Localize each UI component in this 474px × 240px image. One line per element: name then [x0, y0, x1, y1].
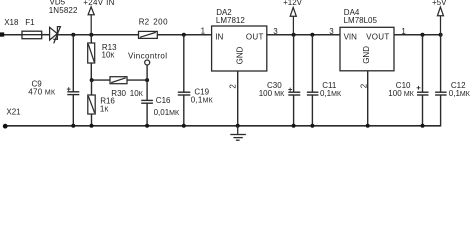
- node: C19 to bus: [182, 124, 186, 128]
- node: C11 to bus: [310, 124, 314, 128]
- fuse F1: [22, 31, 42, 39]
- svg-text:GND: GND: [236, 46, 245, 64]
- node: C30 to bus: [292, 124, 296, 128]
- resistor R13: [88, 35, 95, 80]
- svg-text:0,1МК: 0,1МК: [320, 89, 342, 98]
- node: +12V / C30 junction: [292, 33, 296, 37]
- svg-text:X18: X18: [4, 18, 19, 27]
- terminal X18: [0, 32, 4, 36]
- svg-text:0,1МК: 0,1МК: [191, 96, 214, 105]
- svg-text:3: 3: [273, 27, 278, 36]
- wire: DA4 GND down: [367, 71, 369, 126]
- svg-text:2: 2: [228, 84, 237, 89]
- node: C10 junction: [421, 33, 425, 37]
- terminal Vincontrol (open circle): [145, 60, 150, 65]
- svg-text:10К: 10К: [130, 89, 144, 98]
- wire: F1 to VD5: [42, 34, 50, 36]
- svg-text:0,1МК: 0,1МК: [449, 89, 471, 98]
- svg-text:10К: 10К: [102, 51, 116, 60]
- svg-text:1К: 1К: [100, 104, 109, 113]
- wire: DA4 VOUT to +5V node: [394, 34, 441, 36]
- capacitor C10 (electrolytic, +): [417, 35, 429, 126]
- node: C9 to bus: [71, 124, 75, 128]
- capacitor C11: [307, 35, 319, 126]
- wire: main top rail X18 to F1: [2, 34, 22, 36]
- ground symbol: [230, 126, 246, 140]
- wire: R2 to DA2 IN: [157, 34, 211, 36]
- node: C10 to bus: [421, 124, 425, 128]
- node: diode output junction (C9 tap): [71, 33, 75, 37]
- node: C16 to bus: [145, 124, 149, 128]
- regulator DA4 LM78L05 box: [340, 27, 394, 71]
- svg-text:100 МК: 100 МК: [388, 89, 414, 98]
- wire: node to R30: [92, 79, 110, 81]
- svg-text:LM78L05: LM78L05: [344, 16, 378, 25]
- svg-text:F1: F1: [25, 18, 35, 27]
- capacitor C30 (electrolytic, +): [288, 35, 300, 126]
- node: C11 junction: [310, 33, 314, 37]
- node: R13/R16/R30 junction: [90, 78, 94, 82]
- svg-text:C16: C16: [156, 96, 171, 105]
- power arrow +12V: [290, 7, 296, 34]
- diode VD5 (Schottky 1N5822): [50, 26, 61, 43]
- svg-text:0,01МК: 0,01МК: [154, 108, 180, 117]
- node: +5V / C12 junction: [439, 33, 443, 37]
- svg-text:+5V: +5V: [432, 0, 447, 7]
- resistor R30: [110, 77, 127, 84]
- resistor R2: [139, 31, 158, 38]
- wire: VD5 to R2: [58, 34, 139, 36]
- svg-text:VOUT: VOUT: [366, 32, 389, 41]
- wire: DA2 GND down: [237, 71, 239, 126]
- svg-text:Vincontrol: Vincontrol: [128, 52, 167, 61]
- svg-text:1N5822: 1N5822: [49, 6, 78, 15]
- svg-text:IN: IN: [215, 32, 223, 41]
- wire: C9 branch down: [72, 35, 74, 92]
- svg-text:3: 3: [329, 27, 334, 36]
- node: Vincontrol / C16 junction: [145, 78, 149, 82]
- svg-text:GND: GND: [362, 46, 371, 64]
- node: DA4 GND to bus: [366, 124, 370, 128]
- svg-text:R30: R30: [111, 89, 126, 98]
- svg-text:1: 1: [201, 27, 206, 36]
- capacitor C16: [141, 80, 153, 126]
- resistor R16: [88, 80, 95, 126]
- wire: up to Vincontrol terminal: [146, 65, 148, 80]
- svg-text:VIN: VIN: [344, 32, 358, 41]
- wire: ground bus: [4, 125, 441, 127]
- svg-text:OUT: OUT: [246, 32, 264, 41]
- wire: DA2 OUT to DA4 VIN: [267, 34, 340, 36]
- capacitor C9 (electrolytic, +): [67, 92, 79, 95]
- svg-text:1: 1: [401, 27, 406, 36]
- capacitor C19: [178, 35, 191, 126]
- node: R16 to bus: [90, 124, 94, 128]
- node: DA2 GND to bus: [236, 124, 240, 128]
- svg-text:200: 200: [153, 17, 168, 26]
- wire: R30 to Vincontrol node: [127, 79, 147, 81]
- power arrow +5V: [437, 7, 443, 35]
- svg-text:X21: X21: [6, 107, 21, 116]
- svg-text:100 МК: 100 МК: [259, 89, 285, 98]
- regulator DA2 LM7812 box: [212, 26, 267, 71]
- svg-text:+12V: +12V: [283, 0, 303, 7]
- node: +24V / R13 junction: [89, 33, 93, 37]
- capacitor C12: [435, 35, 447, 127]
- svg-text:R2: R2: [139, 17, 150, 26]
- power arrow +24V IN: [88, 7, 94, 35]
- svg-text:470 МК: 470 МК: [28, 88, 56, 97]
- node: C19 junction: [182, 33, 186, 37]
- svg-text:+24V IN: +24V IN: [83, 0, 115, 7]
- terminal X21: [3, 124, 8, 129]
- svg-text:LM7812: LM7812: [216, 16, 245, 25]
